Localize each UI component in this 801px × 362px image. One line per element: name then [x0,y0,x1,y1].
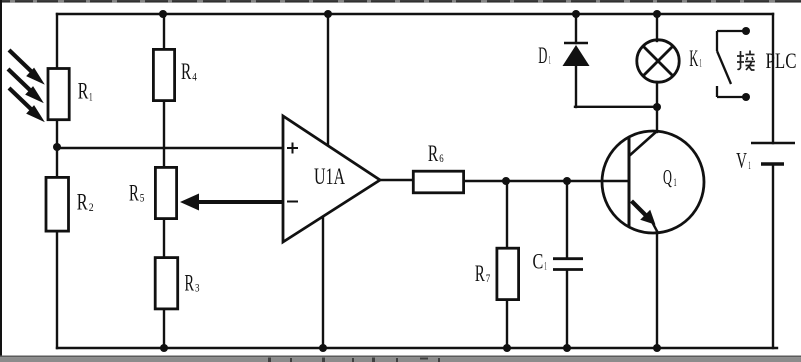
junction: bottom rail / R7 [503,344,511,352]
wire: R4 to R5 [163,102,165,166]
svg-text:7: 7 [486,273,491,285]
op-amp U1A [283,116,380,242]
wire: R1 to node A (R1/R2 junction) [56,121,58,176]
capacitor C1 [553,259,583,270]
junction: output net / C1 [563,177,571,185]
wire: bottom rail [57,347,777,349]
wire: R5 to R3 [163,220,165,256]
wire: C1 to bottom rail [566,270,568,348]
wire: Q1 emitter to bottom rail [656,232,658,348]
junction: bottom rail / Q1 emitter [653,344,661,352]
svg-text:6: 6 [439,153,444,165]
wire: lamp K1 to collector node [656,82,658,107]
svg-text:2: 2 [89,202,94,214]
junction: bottom rail / R3 [160,344,168,352]
resistor R7 [497,248,519,299]
svg-text:PLC: PLC [766,48,797,73]
contact terminal upper [742,27,750,35]
svg-text:R: R [475,261,485,286]
wire: R3 to bottom rail [163,310,165,348]
svg-text:1: 1 [549,55,551,67]
resistor R3 [155,258,178,309]
wire: collector node to Q1 collector [656,107,658,132]
wire: output net to R7 [506,181,508,247]
junction: bottom rail / C1 [563,344,571,352]
svg-text:Q: Q [663,165,672,189]
svg-text:1: 1 [544,261,547,273]
lamp K1 [637,40,679,82]
svg-text:1: 1 [748,160,751,172]
resistor R2 [46,177,69,231]
wire: D1 anode down [575,65,577,107]
wire: left rail top to R1 [56,14,58,67]
potentiometer R5 [155,167,176,218]
junction: top rail / D1 [572,10,580,18]
R5 wiper arrow to op-amp - input [180,194,283,211]
wire: right rail upper (to V1 +) [772,14,774,143]
wire: D1 anode to collector node [575,106,657,108]
wire: top supply rail [57,13,773,15]
svg-text:R: R [181,59,192,84]
wire: R7 to bottom rail [506,301,508,348]
svg-text:R: R [78,79,89,104]
op-amp + input sign [287,143,298,154]
svg-text:K: K [689,46,698,71]
wire: top rail to lamp K1 [656,14,658,41]
svg-text:5: 5 [140,193,145,205]
wire: R2 to bottom rail [56,232,58,348]
Q1 emitter arrow [632,201,656,225]
junction: top rail / R4 [159,10,167,18]
wire: top rail to D1 cathode [575,14,577,43]
svg-text:R: R [129,180,139,205]
node A junction (R1/R2/op-amp+) [53,143,61,151]
light arrows at R1 [8,50,44,121]
svg-text:R: R [77,190,88,215]
junction: top rail / K1 [653,10,661,18]
svg-text:1: 1 [673,177,677,189]
wire: node A to op-amp + input [57,147,283,149]
junction: collector node (D1/K1/Q1) [653,103,661,111]
svg-text:U1A: U1A [314,164,345,189]
photoresistor R1 [48,69,69,120]
svg-text:C: C [533,249,544,274]
label: 接 PLC [737,51,755,71]
wire: output net to C1 [566,181,568,258]
junction: bottom rail / op-amp V- [319,344,327,352]
wire: op-amp V+ supply [327,14,329,146]
wire: op-amp output to R6 [380,179,412,181]
resistor R4 [153,49,174,100]
decorative top band (cropped text row) [0,0,801,3]
resistor R6 [413,171,463,193]
decorative bottom band (cropped next row) [0,356,801,362]
wire: op-amp V- supply [322,217,324,348]
svg-text:R: R [185,270,195,295]
battery V1 [751,143,795,164]
wire: R6 to Q1 base (output net) [465,180,628,182]
svg-text:1: 1 [699,58,702,70]
relay contact K1 to PLC [717,31,744,97]
junction: output net / R7 [502,177,510,185]
svg-text:3: 3 [195,283,200,295]
svg-text:4: 4 [192,72,197,84]
svg-text:1: 1 [89,91,93,103]
svg-text:V: V [736,147,747,172]
op-amp - input sign [287,201,298,203]
diode D1 [563,43,590,66]
wire: top rail to R4 [163,14,165,48]
decorative left border line [0,0,2,356]
wire: right rail lower (V1 - to bottom rail) [772,164,774,348]
junction: top rail / op-amp V+ [324,10,332,18]
contact terminal lower [742,93,750,101]
svg-text:R: R [428,141,439,166]
svg-text:D: D [538,43,547,68]
transistor Q1 [602,131,704,233]
